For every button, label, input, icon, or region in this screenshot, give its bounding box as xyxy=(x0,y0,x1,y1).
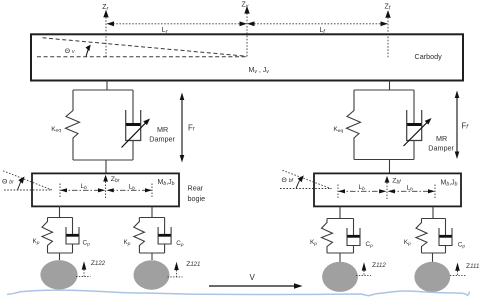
MR damper (rear): lower rod xyxy=(132,141,134,161)
label Z112 xyxy=(372,262,386,269)
spring Kp (wheel 4) xyxy=(416,219,427,254)
svg-text:Fr: Fr xyxy=(188,124,196,133)
svg-text:Zbf: Zbf xyxy=(392,178,401,186)
svg-text:Z121: Z121 xyxy=(186,261,200,268)
wire: front bogie to primary suspension 3 xyxy=(339,207,341,219)
dimension Lb (front-left) xyxy=(338,184,387,198)
label Kp (wheel 4) xyxy=(404,239,411,247)
label Carbody xyxy=(415,52,443,61)
svg-text:Kp: Kp xyxy=(33,238,40,246)
dimension Lb (front-right) xyxy=(388,185,436,199)
svg-text:V: V xyxy=(250,273,256,282)
dimension Lf xyxy=(247,21,388,35)
svg-text:Kp: Kp xyxy=(310,239,317,247)
primary suspension 4 frame xyxy=(422,219,446,254)
label Cp (wheel 3) xyxy=(366,241,374,249)
svg-text:Cp: Cp xyxy=(176,240,184,248)
damper Cp (wheel 2): rod, cup, piston xyxy=(158,218,171,254)
primary suspension 2 frame xyxy=(139,218,164,254)
MR damper (rear): piston plate xyxy=(126,123,140,126)
label Z111 xyxy=(466,263,479,270)
label Cp (wheel 1) xyxy=(83,240,91,248)
svg-text:MR: MR xyxy=(436,134,447,143)
wheel W2 xyxy=(134,260,170,289)
wire: suspension 3 to wheel 3 xyxy=(339,253,341,262)
wire: rear suspension to rear bogie xyxy=(105,160,107,173)
label Mb,Jb (rear) xyxy=(158,179,175,187)
svg-text:Cp: Cp xyxy=(366,241,374,249)
svg-text:MR: MR xyxy=(157,125,168,134)
label MR Damper (rear) xyxy=(149,125,175,143)
svg-text:Lf: Lf xyxy=(320,27,326,35)
MR damper (front): piston plate xyxy=(407,123,421,126)
node Zv arrow xyxy=(242,2,250,57)
label Kp (wheel 1) xyxy=(33,238,40,246)
MR damper (front): lower rod xyxy=(413,141,415,160)
carbody tilted dashed centerline (pitch) xyxy=(43,38,248,57)
svg-text:Keq: Keq xyxy=(333,126,343,134)
svg-text:Keq: Keq xyxy=(51,126,61,134)
svg-text:Lr: Lr xyxy=(162,27,168,35)
svg-text:Zbr: Zbr xyxy=(111,176,120,184)
force arrow Fr xyxy=(180,93,185,163)
angle Theta-bf: horizontal dotted line xyxy=(280,188,331,190)
MR damper (front): cylinder cup xyxy=(407,110,422,141)
wire: carbody to rear secondary suspension xyxy=(106,80,108,90)
spring Keq (rear) xyxy=(66,90,80,160)
svg-text:Z112: Z112 xyxy=(372,262,386,269)
MR damper (front): piston rod xyxy=(413,90,415,125)
wheel W3 xyxy=(322,262,358,292)
dimension Lb (rear-right) xyxy=(106,184,152,198)
wire: suspension 2 to wheel 2 xyxy=(151,253,153,260)
wire: front bogie to primary suspension 4 xyxy=(432,207,434,219)
damper Cp (wheel 3): rod, cup, piston xyxy=(347,219,360,254)
front secondary suspension frame xyxy=(354,90,414,160)
svg-text:Cp: Cp xyxy=(458,241,466,249)
svg-text:Damper: Damper xyxy=(428,143,454,152)
label Zbf xyxy=(392,178,401,186)
svg-text:Mb,Jb: Mb,Jb xyxy=(158,179,175,187)
node Z121 arrow xyxy=(168,262,183,277)
angle arrow Theta-v xyxy=(86,45,91,57)
wire: carbody to front secondary suspension xyxy=(389,80,391,90)
label Ff xyxy=(462,122,470,131)
label Fr xyxy=(188,124,196,133)
svg-text:Mb,Jb: Mb,Jb xyxy=(441,180,458,188)
svg-text:Damper: Damper xyxy=(149,134,175,143)
MR damper (rear): piston rod xyxy=(132,90,134,125)
label Theta-br xyxy=(2,179,14,186)
damper Cp (wheel 1): rod, cup, piston xyxy=(66,218,79,254)
wheel W1 xyxy=(40,260,77,289)
label Mv,Jv xyxy=(249,67,270,75)
angle Theta-bf: tilted dotted line xyxy=(282,170,331,189)
svg-text:Mv , Jv: Mv , Jv xyxy=(249,67,270,75)
svg-text:Rear: Rear xyxy=(188,184,204,193)
wheel W4 xyxy=(414,262,450,292)
damper Cp (wheel 4): rod, cup, piston xyxy=(439,219,452,254)
node Zbr arrow xyxy=(103,175,108,199)
label Kp (wheel 2) xyxy=(124,239,131,247)
dimension Lb (rear-left) xyxy=(60,183,105,197)
svg-text:Θ v: Θ v xyxy=(65,48,75,55)
wire: front suspension to front bogie xyxy=(389,160,391,174)
label Rear bogie xyxy=(188,184,206,203)
angle Theta-bf: arc arrow xyxy=(296,175,304,188)
node Z122 arrow xyxy=(76,261,91,276)
wire: suspension 4 to wheel 4 xyxy=(432,253,434,262)
label Mb,Jb (front) xyxy=(441,180,458,188)
svg-text:Θ br: Θ br xyxy=(2,179,14,186)
label Keq (front) xyxy=(333,126,343,134)
label Zbr xyxy=(111,176,120,184)
label Z122 xyxy=(91,260,106,267)
carbody Mv,Jv xyxy=(31,34,463,80)
angle Theta-br: arc arrow xyxy=(18,177,25,191)
svg-text:Carbody: Carbody xyxy=(415,52,443,61)
node Z111 arrow xyxy=(450,263,466,276)
label Keq (rear) xyxy=(51,126,61,134)
svg-text:Zr: Zr xyxy=(102,4,108,12)
node Zbf arrow xyxy=(385,176,390,199)
label Theta-bf xyxy=(282,177,294,184)
spring Kp (wheel 2) xyxy=(134,218,145,254)
rail (track irregularity line) xyxy=(7,290,470,296)
node Zr arrow xyxy=(102,4,108,57)
spring Kp (wheel 1) xyxy=(42,218,53,254)
MR damper (rear): variable arrow xyxy=(122,119,151,148)
label Z121 xyxy=(186,261,200,268)
node Zf arrow xyxy=(385,4,391,59)
rear bogie Mb,Jb xyxy=(32,173,179,206)
MR damper (rear): cylinder cup xyxy=(126,110,141,141)
svg-text:Kp: Kp xyxy=(404,239,411,247)
spring Kp (wheel 3) xyxy=(322,219,333,254)
spring Keq (front) xyxy=(347,90,361,160)
wire: rear bogie to primary suspension 1 xyxy=(59,206,61,218)
rear secondary suspension frame (top bar, bottom bar) xyxy=(73,90,133,160)
dimension Lr xyxy=(107,21,248,35)
label Theta-v xyxy=(65,48,75,55)
primary suspension 3 frame xyxy=(327,219,354,254)
label Kp (wheel 3) xyxy=(310,239,317,247)
svg-text:Θ bf: Θ bf xyxy=(282,177,294,184)
label Cp (wheel 4) xyxy=(458,241,466,249)
svg-text:Kp: Kp xyxy=(124,239,131,247)
svg-text:Zf: Zf xyxy=(385,4,391,12)
angle Theta-br: tilted dotted line xyxy=(3,171,52,190)
angle Theta-br: horizontal dotted line xyxy=(4,189,52,191)
carbody horizontal dashed reference line xyxy=(37,56,247,58)
wire: suspension 1 to wheel 1 xyxy=(59,253,61,260)
wire: rear bogie to primary suspension 2 xyxy=(151,207,153,218)
svg-text:Z122: Z122 xyxy=(91,260,106,267)
label Cp (wheel 2) xyxy=(176,240,184,248)
MR damper (front): variable arrow xyxy=(404,118,432,146)
node Z112 arrow xyxy=(356,262,371,275)
label MR Damper (front) xyxy=(428,134,454,152)
svg-text:Z111: Z111 xyxy=(466,263,479,270)
label V xyxy=(250,273,256,282)
front bogie Mb,Jb xyxy=(314,173,461,206)
svg-text:bogie: bogie xyxy=(188,194,206,203)
force arrow Ff xyxy=(455,91,460,160)
primary suspension 1 frame xyxy=(48,218,73,254)
svg-text:Cp: Cp xyxy=(83,240,91,248)
svg-text:Ff: Ff xyxy=(462,122,470,131)
velocity arrow V xyxy=(209,283,303,288)
